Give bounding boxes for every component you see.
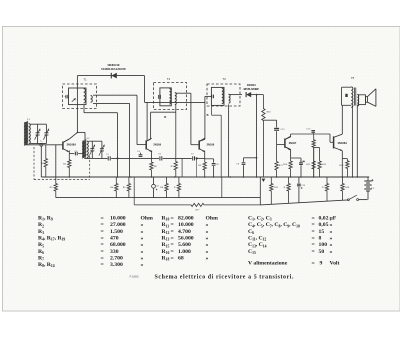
wire to Q3 emitter node — [196, 157, 206, 159]
svg-text:C4, C5, C7, C8, C9, C10: C4, C5, C7, C8, C9, C10 — [248, 222, 300, 228]
wire signal row 2 — [163, 157, 192, 159]
oscillator coil L2 — [82, 141, 84, 158]
svg-text:»: » — [330, 236, 333, 242]
capacitor C1 — [107, 156, 109, 160]
svg-text:RIVELATORE: RIVELATORE — [244, 87, 260, 91]
svg-text:=: = — [171, 256, 174, 262]
wire Q3 collector to T3 — [199, 139, 205, 141]
resistor R15 — [312, 147, 315, 177]
wire junction down — [40, 146, 42, 177]
svg-text:R1, R9: R1, R9 — [38, 216, 53, 222]
svg-text:»: » — [141, 242, 144, 248]
svg-text:0,05: 0,05 — [319, 222, 329, 228]
svg-text:C1, C2, C3: C1, C2, C3 — [248, 216, 272, 222]
svg-text:=: = — [312, 236, 315, 242]
svg-text:10.000: 10.000 — [178, 222, 194, 228]
wire R2 top — [55, 145, 57, 177]
capacitor C4 stub — [140, 153, 142, 155]
svg-text:=: = — [312, 229, 315, 235]
svg-text:B: B — [164, 115, 166, 119]
wire Q4 base — [277, 144, 285, 146]
svg-text:2N407: 2N407 — [289, 141, 297, 145]
wire Q1 base — [26, 144, 63, 146]
wire T5 down 1 — [351, 106, 353, 177]
svg-text:»: » — [141, 256, 144, 262]
wire T1 sec top to Q2 base — [93, 94, 137, 96]
variable capacitor C3 — [37, 124, 39, 133]
svg-text:1.500: 1.500 — [110, 229, 123, 235]
svg-text:=: = — [171, 242, 174, 248]
transistor V4 2N407 — [284, 139, 286, 148]
svg-text:T3: T3 — [222, 77, 226, 81]
svg-text:»: » — [330, 222, 333, 228]
svg-text:50: 50 — [319, 249, 325, 255]
wire to feedback rail — [133, 177, 135, 205]
svg-text:=: = — [101, 229, 104, 235]
svg-text:0,02: 0,02 — [319, 216, 329, 222]
svg-text:B: B — [206, 113, 208, 117]
resistor R2 — [54, 177, 57, 198]
svg-text:»: » — [141, 249, 144, 255]
svg-text:»: » — [330, 242, 333, 248]
resistor R9 — [203, 158, 206, 177]
svg-text:5.600: 5.600 — [178, 242, 191, 248]
capacitor C14 — [291, 157, 301, 159]
svg-text:=: = — [171, 236, 174, 242]
svg-text:=: = — [312, 216, 315, 222]
wire to Q5 base — [329, 134, 331, 142]
L1 tuning loop — [30, 123, 46, 125]
capacitor C8 bypass — [205, 158, 214, 160]
wire T2 right down — [181, 158, 183, 177]
svg-text:56.000: 56.000 — [178, 236, 194, 242]
resistor R10 — [262, 95, 265, 177]
svg-text:T1: T1 — [83, 77, 87, 81]
svg-text:V alimentazione: V alimentazione — [248, 261, 288, 267]
T1 inner — [69, 88, 87, 105]
svg-text:»: » — [141, 262, 144, 268]
rail second — [56, 197, 260, 199]
svg-text:=: = — [312, 261, 315, 267]
svg-text:T5: T5 — [351, 76, 355, 80]
svg-text:=: = — [171, 249, 174, 255]
svg-text:=: = — [171, 222, 174, 228]
T1 tuning cap — [65, 96, 66, 98]
svg-text:=: = — [101, 256, 104, 262]
wire bias branch — [314, 147, 320, 149]
svg-text:=: = — [101, 242, 104, 248]
wire diode out — [248, 94, 263, 96]
resistor R12 — [318, 148, 321, 177]
wire Q2 emitter — [150, 151, 152, 159]
svg-text:2N408A: 2N408A — [338, 141, 348, 145]
svg-text:=: = — [101, 262, 104, 268]
wire detector down — [256, 95, 258, 177]
capacitor C6 series — [159, 156, 161, 160]
svg-text:9 V: 9 V — [371, 188, 375, 190]
resistor R7 — [174, 104, 177, 177]
wire R10 to C15 — [263, 119, 276, 121]
svg-text:µF: µF — [330, 216, 337, 222]
wire Q4 collector — [285, 137, 291, 140]
capacitor C11 — [153, 177, 155, 184]
transistor V5 2N408A — [333, 136, 335, 148]
feedback rail R17 — [134, 203, 260, 206]
svg-text:Schema elettrico di ricevitore: Schema elettrico di ricevitore a 5 trans… — [155, 274, 295, 280]
wire Q1 emitter — [68, 150, 70, 153]
svg-text:68: 68 — [178, 256, 184, 262]
wire signal row — [111, 157, 159, 159]
wire Q2 collector — [146, 139, 150, 141]
rail right sloped — [260, 200, 348, 205]
svg-text:Ohm: Ohm — [141, 216, 154, 222]
svg-text:C11: C11 — [156, 185, 160, 187]
svg-text:=: = — [312, 222, 315, 228]
pot wiper arrow — [262, 179, 266, 182]
wire T5 down 2 — [356, 105, 358, 177]
svg-text:10.000: 10.000 — [110, 216, 126, 222]
diode D1 — [111, 73, 117, 79]
svg-text:=: = — [171, 229, 174, 235]
wire T3 sec to diode — [229, 94, 242, 96]
variable capacitor C6 — [101, 141, 103, 149]
capacitor C2 — [69, 153, 74, 155]
resistor R14 — [289, 158, 292, 177]
IF transformer T1 box — [63, 84, 97, 109]
svg-text:T2: T2 — [167, 77, 171, 81]
svg-text:2.700: 2.700 — [110, 256, 123, 262]
wire T1 bottom down — [83, 105, 85, 113]
resistor R6 — [150, 158, 153, 177]
svg-text:2N169: 2N169 — [207, 143, 215, 147]
svg-text:»: » — [141, 229, 144, 235]
svg-text:»: » — [206, 249, 209, 255]
svg-text:STABILIZZAZIONE: STABILIZZAZIONE — [101, 67, 126, 71]
svg-text:4.700: 4.700 — [178, 229, 191, 235]
resistor R13 — [270, 177, 273, 204]
svg-text:»: » — [330, 249, 333, 255]
T3 tuning cap — [211, 95, 213, 99]
gang dashed rail — [34, 179, 90, 181]
resistor R1 — [44, 145, 47, 177]
L2 loop — [88, 140, 102, 142]
wire T3 box down — [211, 105, 213, 115]
svg-text:»: » — [206, 236, 209, 242]
svg-text:8: 8 — [319, 236, 322, 242]
wire collector row — [291, 133, 330, 135]
gang dashed link right — [89, 156, 91, 180]
resistor R18 — [341, 177, 344, 200]
wire Q2 base — [137, 144, 146, 146]
transistor V1 2N168A — [62, 142, 64, 150]
wire Q5 collector — [341, 105, 343, 134]
speaker — [358, 95, 365, 105]
svg-text:=: = — [312, 242, 315, 248]
svg-text:»: » — [141, 222, 144, 228]
wire top feed — [77, 75, 144, 77]
capacitor C9 — [243, 158, 245, 162]
wire AGC line into T2 — [146, 102, 148, 139]
wire collector to L2 top — [77, 131, 85, 133]
rail step — [259, 177, 261, 205]
svg-text:=: = — [101, 236, 104, 242]
IF transformer T3 box — [207, 84, 240, 106]
wire Q5 emitter split — [341, 151, 343, 159]
svg-text:»: » — [206, 229, 209, 235]
svg-text:»: » — [206, 222, 209, 228]
svg-text:F.1082: F.1082 — [130, 275, 139, 279]
wire L2 bottom — [84, 157, 107, 159]
node junction circle — [40, 143, 43, 146]
svg-text:Volt: Volt — [330, 261, 340, 267]
capacitor C13 stub — [312, 133, 314, 134]
wire Q3 emitter — [204, 151, 206, 159]
wire diode to T2 T3 — [144, 76, 146, 103]
svg-text:=: = — [101, 216, 104, 222]
wire T1 top — [76, 76, 78, 133]
variable capacitor C5 — [91, 141, 93, 149]
main bus rail — [41, 176, 369, 178]
wire T1 sec bottom — [93, 102, 130, 104]
svg-text:3.300: 3.300 — [110, 262, 123, 268]
svg-text:»: » — [330, 229, 333, 235]
transistor V2 2N169 — [145, 140, 147, 149]
IF transformer T2 box — [154, 83, 187, 110]
transistor V3 2N169 — [198, 140, 200, 149]
diode D2 rivelatore — [246, 92, 251, 97]
svg-text:C₂₁: C₂₁ — [40, 141, 43, 143]
capacitor C7 — [192, 156, 194, 160]
svg-text:»: » — [141, 236, 144, 242]
resistor R8 — [165, 177, 168, 198]
T3 secondary winding — [229, 94, 231, 103]
resistor R5 — [127, 177, 130, 198]
T1 arrow — [72, 98, 76, 102]
resistor R11 — [275, 131, 278, 177]
svg-text:68.000: 68.000 — [110, 242, 126, 248]
switch S1 — [347, 199, 349, 201]
resistor R4 — [115, 177, 118, 198]
capacitor C15 — [276, 120, 278, 127]
svg-text:»: » — [206, 256, 209, 262]
gang dashed link left — [33, 147, 35, 180]
T2 inner — [160, 88, 171, 106]
wire Q4 emitter — [285, 147, 291, 150]
T2 tuning cap — [158, 95, 160, 99]
wire volume feed — [244, 157, 257, 159]
wire down mid — [221, 177, 223, 198]
svg-text:100: 100 — [319, 242, 328, 248]
antenna coil L1 — [24, 122, 26, 145]
svg-text:Ohm: Ohm — [206, 216, 219, 222]
wire T2 sec to Q3 base — [176, 92, 191, 94]
resistor R10b — [177, 177, 180, 198]
wire Q1 collector — [63, 139, 69, 143]
resistor R3 — [68, 154, 71, 177]
svg-text:2N168A: 2N168A — [67, 142, 77, 146]
svg-text:330: 330 — [110, 249, 119, 255]
svg-text:=: = — [312, 249, 315, 255]
resistor R16 — [346, 159, 349, 177]
resistor R12b — [287, 177, 290, 203]
svg-text:470: 470 — [110, 236, 119, 242]
svg-text:=: = — [101, 249, 104, 255]
variable capacitor C4 — [45, 124, 47, 133]
svg-text:82.000: 82.000 — [178, 216, 194, 222]
resistor R16b — [325, 177, 328, 201]
T2 secondary winding — [175, 93, 177, 105]
svg-text:1.000: 1.000 — [178, 249, 191, 255]
wire T3 return — [228, 104, 230, 177]
svg-text:9: 9 — [320, 261, 323, 267]
T3 inner — [211, 87, 224, 105]
svg-text:15: 15 — [319, 229, 325, 235]
svg-text:=: = — [171, 216, 174, 222]
svg-text:»: » — [206, 242, 209, 248]
battery 9V — [367, 177, 369, 181]
svg-text:27.000: 27.000 — [110, 222, 126, 228]
resistor bias upper — [312, 134, 315, 177]
capacitor C10 — [298, 177, 300, 183]
svg-text:=: = — [101, 222, 104, 228]
T1 secondary winding — [91, 96, 93, 103]
svg-text:2N169: 2N169 — [153, 143, 161, 147]
